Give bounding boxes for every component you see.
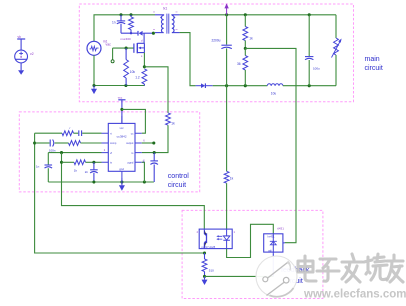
wire source — [143, 53, 145, 67]
svg-text:comp: comp — [110, 142, 117, 145]
line B resistor R10 — [69, 141, 81, 146]
clamp diode D1 — [137, 31, 139, 36]
feedback resistor R12 — [204, 253, 206, 259]
svg-text:circuit: circuit — [168, 182, 186, 189]
output capacitor C3 100u — [308, 15, 310, 56]
junction — [244, 84, 247, 87]
secondary bottom wire — [180, 33, 196, 86]
ground — [204, 276, 206, 279]
junction — [120, 108, 123, 111]
secondary bottom rail — [213, 85, 268, 87]
junction divider mid — [244, 47, 247, 50]
wire — [74, 132, 79, 134]
svg-text:www.elecfans.com: www.elecfans.com — [303, 289, 406, 301]
svg-text:100u: 100u — [313, 66, 320, 70]
resistor R11 — [74, 160, 86, 165]
svg-text:vcc: vcc — [118, 96, 123, 100]
line C wire — [48, 152, 101, 154]
svg-text:10u: 10u — [271, 92, 277, 96]
svg-text:1k: 1k — [230, 177, 234, 181]
wire vcc to pin — [122, 109, 145, 133]
svg-text:1k: 1k — [171, 122, 175, 126]
svg-text:lm431: lm431 — [268, 234, 276, 238]
secondary top rail — [180, 14, 336, 16]
junction — [119, 13, 122, 16]
optocoupler transistor — [206, 233, 208, 243]
pgnd wire — [142, 162, 145, 182]
IC gnd pin wire — [121, 178, 123, 185]
TL431 anode lead — [272, 253, 274, 276]
led cathode wire — [227, 224, 274, 257]
svg-text:1k: 1k — [249, 37, 253, 41]
junction — [308, 13, 311, 16]
junction emitter — [203, 251, 206, 254]
IC U1 uc3842 — [108, 123, 135, 171]
wire vcc — [121, 100, 123, 124]
ground — [93, 86, 95, 89]
svg-text:circuit: circuit — [365, 65, 383, 72]
IC pin stubs — [102, 133, 109, 162]
svg-text:rt: rt — [110, 131, 112, 135]
svg-text:control: control — [168, 173, 189, 180]
junction — [124, 84, 127, 87]
power bar VB — [17, 38, 25, 40]
bottom rail after inductor — [283, 85, 336, 87]
resistor R8 — [224, 171, 229, 183]
gate resistor R2 — [125, 48, 127, 60]
primary ground rail — [94, 85, 145, 87]
svg-text:510: 510 — [209, 269, 214, 273]
svg-text:main: main — [365, 56, 380, 63]
divider resistor R5 — [244, 15, 246, 27]
junction — [203, 275, 206, 278]
output power arrow — [226, 8, 228, 15]
control ground rail — [48, 181, 154, 183]
junction — [130, 32, 132, 34]
svg-text:v2: v2 — [30, 52, 34, 56]
sense resistor R3 — [142, 69, 147, 84]
junction — [120, 180, 123, 183]
capacitor C8 — [153, 153, 155, 161]
vcc power bar — [118, 99, 125, 101]
wire drain to clamp — [144, 32, 153, 34]
junction — [308, 84, 311, 87]
ground — [119, 185, 125, 191]
load rheostat R7 — [335, 15, 337, 38]
junction — [92, 180, 95, 183]
junction — [60, 151, 63, 154]
svg-text:36: 36 — [237, 62, 241, 66]
svg-text:10k: 10k — [130, 70, 136, 74]
svg-text:**: ** — [153, 28, 155, 32]
junction source sense — [143, 65, 146, 68]
isense junction — [153, 151, 156, 154]
output pin wire — [142, 142, 154, 144]
dashed box: feedback circuit — [182, 210, 323, 298]
svg-text:output: output — [126, 141, 133, 145]
transformer TX1 secondary — [172, 14, 180, 17]
transformer TX1 primary — [155, 14, 164, 17]
optocoupler U2 box — [199, 229, 232, 249]
junction — [60, 161, 63, 164]
wire divider to TL431 ref — [245, 48, 296, 242]
svg-text:vb: vb — [18, 35, 22, 39]
series capacitor C4 — [79, 130, 82, 136]
ground arrow of V2 — [18, 70, 24, 75]
resistor R4 isense filter — [166, 113, 171, 125]
line A wire — [35, 132, 62, 134]
junction — [225, 84, 228, 87]
divider resistor R6 — [243, 56, 248, 71]
wire — [93, 55, 95, 85]
junction — [33, 141, 36, 144]
svg-text:1.2: 1.2 — [135, 76, 140, 80]
junction — [143, 180, 146, 183]
wire to TL431 anode — [205, 275, 274, 277]
svg-text:2n: 2n — [85, 170, 89, 174]
svg-text:1n: 1n — [36, 164, 40, 168]
svg-text:uc3842: uc3842 — [117, 135, 127, 139]
capacitor C6 100n — [47, 153, 49, 165]
snubber bottom wire — [121, 32, 138, 34]
dashed box: main circuit — [79, 4, 353, 102]
junction — [92, 84, 95, 87]
svg-text:2200u: 2200u — [212, 39, 221, 43]
wire — [20, 63, 22, 70]
line B series capacitor C5 — [35, 142, 50, 144]
svg-text:1k: 1k — [74, 169, 78, 173]
wire vfb chain — [62, 153, 205, 230]
watermark elecfans logo and text — [256, 256, 297, 297]
dashed box: control circuit — [19, 112, 199, 192]
svg-text:m1: m1 — [103, 40, 108, 44]
bulk capacitor C2 2200u — [226, 15, 228, 45]
junction — [244, 13, 247, 16]
wire isense — [144, 67, 168, 113]
svg-text:pc817-4n25: pc817-4n25 — [202, 245, 216, 249]
gate stub terminal — [112, 48, 114, 60]
wire — [142, 125, 168, 152]
svg-text:100n: 100n — [49, 148, 56, 152]
svg-text:vf: vf — [110, 151, 112, 155]
mosfet M1 — [133, 44, 135, 53]
wire gate — [113, 47, 134, 49]
capacitor C7 — [93, 162, 95, 169]
junction — [92, 161, 95, 164]
junction — [225, 13, 228, 16]
wire — [20, 39, 22, 50]
transformer TX1 core — [167, 14, 169, 34]
optocoupler led — [223, 229, 230, 249]
svg-text:**: ** — [153, 10, 155, 14]
TL431 ref lead — [283, 242, 285, 244]
line D wire — [62, 161, 75, 163]
svg-text:1n: 1n — [112, 21, 116, 25]
wire — [86, 161, 102, 163]
wire — [226, 183, 228, 229]
svg-text:adj: adj — [268, 249, 272, 253]
svg-text:**: ** — [176, 10, 178, 14]
output filter inductor L1 — [267, 84, 271, 86]
svg-text:pgnd: pgnd — [128, 161, 134, 165]
svg-text:gnd: gnd — [119, 167, 124, 171]
svg-text:r: r — [70, 126, 71, 130]
left bus wire — [35, 133, 205, 253]
wire — [82, 132, 101, 134]
snubber resistor R1 — [130, 15, 132, 17]
resistor R9 — [62, 131, 74, 136]
svg-text:tx1: tx1 — [163, 6, 167, 10]
svg-text:vcc: vcc — [119, 126, 124, 130]
junction — [125, 47, 128, 50]
junction — [129, 13, 132, 16]
wire output to feedback — [226, 86, 228, 172]
svg-text:mur460: mur460 — [121, 37, 132, 41]
wire — [81, 142, 102, 144]
output diode D2 — [196, 85, 201, 87]
svg-text:**: ** — [176, 28, 178, 32]
svg-text:tl431: tl431 — [277, 227, 284, 231]
TL431 U3 — [264, 234, 283, 252]
AC source Vac — [87, 41, 101, 55]
node VIN top rail (primary) — [94, 15, 155, 42]
voltage source V2 — [15, 50, 28, 63]
snubber capacitor C1 — [120, 15, 122, 21]
junction node drain — [152, 32, 155, 35]
